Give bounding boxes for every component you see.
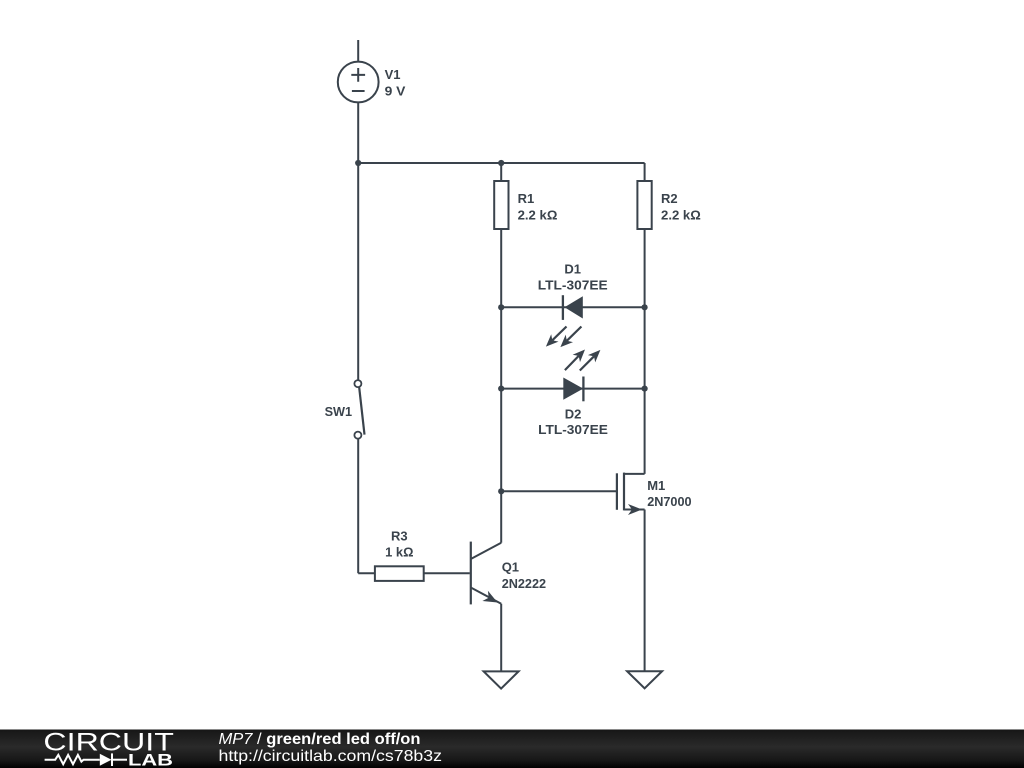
svg-text:LAB: LAB xyxy=(128,752,173,768)
svg-text:V1: V1 xyxy=(385,67,401,82)
svg-text:http://circuitlab.com/cs78b3z: http://circuitlab.com/cs78b3z xyxy=(219,748,443,765)
svg-text:M1: M1 xyxy=(647,478,665,493)
svg-text:LTL-307EE: LTL-307EE xyxy=(538,422,608,437)
svg-text:1 kΩ: 1 kΩ xyxy=(385,545,413,560)
svg-text:2.2 kΩ: 2.2 kΩ xyxy=(661,207,701,222)
svg-text:SW1: SW1 xyxy=(325,404,353,419)
svg-text:MP7 / green/red led off/on: MP7 / green/red led off/on xyxy=(219,731,421,748)
svg-text:2N7000: 2N7000 xyxy=(647,494,691,509)
svg-text:D1: D1 xyxy=(564,261,581,276)
svg-text:LTL-307EE: LTL-307EE xyxy=(538,278,608,293)
svg-text:R3: R3 xyxy=(391,528,408,543)
svg-text:R2: R2 xyxy=(661,191,678,206)
svg-text:9 V: 9 V xyxy=(385,84,406,99)
svg-text:D2: D2 xyxy=(565,407,582,422)
svg-text:2N2222: 2N2222 xyxy=(502,576,546,591)
svg-text:2.2 kΩ: 2.2 kΩ xyxy=(518,207,558,222)
svg-text:Q1: Q1 xyxy=(502,559,519,574)
svg-text:R1: R1 xyxy=(518,191,535,206)
